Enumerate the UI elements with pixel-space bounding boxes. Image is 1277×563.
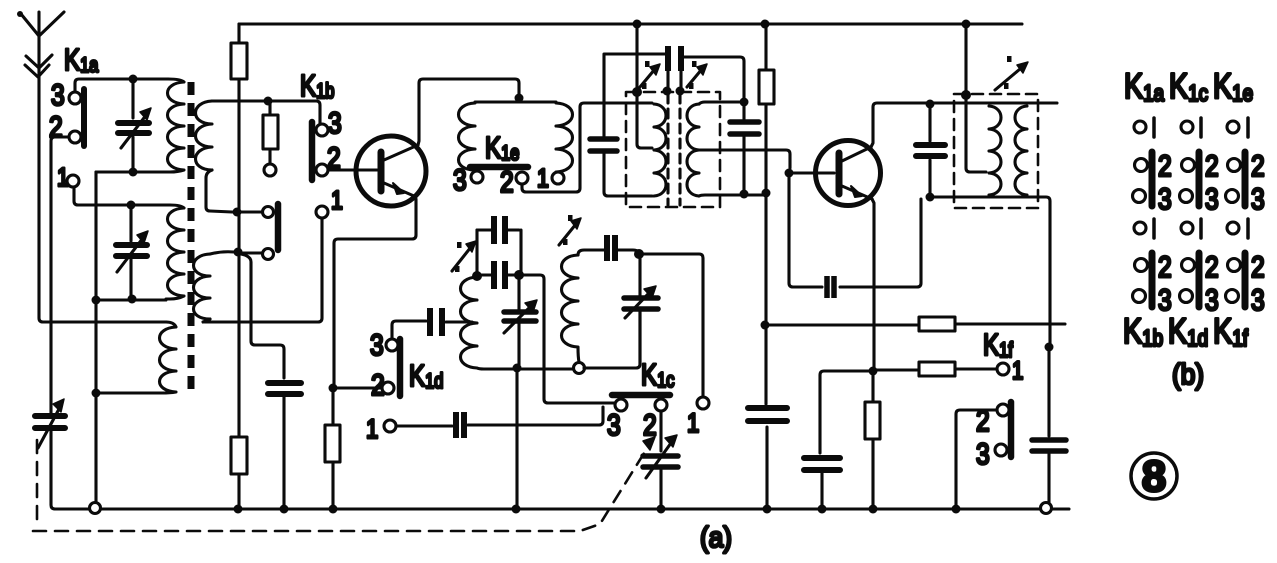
resistor R4 xyxy=(759,24,774,190)
output can dashed box xyxy=(954,94,1038,208)
node x767 bus xyxy=(763,505,772,514)
coil L2 antenna primary 2 xyxy=(131,205,184,299)
wire IF secondary bottom lead xyxy=(699,195,764,196)
svg-text:3: 3 xyxy=(328,106,342,140)
switch K1c moving bar xyxy=(612,392,670,399)
wire C12 left lead down xyxy=(604,54,666,136)
switch K1c contact 1 xyxy=(697,397,709,409)
node IF can top left xyxy=(632,87,642,97)
transistor Q2 xyxy=(816,141,881,206)
capacitor C14 IF right xyxy=(730,102,759,190)
magnetic core dashed xyxy=(188,82,195,392)
legend row4 group2 switch xyxy=(1180,250,1219,317)
capacitor C7 osc B xyxy=(607,235,615,261)
node x766 y193 xyxy=(762,189,771,198)
node x639 y254 xyxy=(634,249,644,259)
resistor R3 emitter xyxy=(325,392,340,509)
switch K1b moving bar xyxy=(309,122,316,180)
switch K1a contact 3 xyxy=(69,92,81,104)
wire rail tap to IF primary xyxy=(637,24,652,148)
node rail x637 xyxy=(633,20,642,29)
switch K1c contact 3 xyxy=(615,399,627,411)
node K1c cap on bus xyxy=(657,505,666,514)
aux contact bar xyxy=(275,204,282,250)
svg-text:K1f: K1f xyxy=(983,327,1013,362)
capacitor C15 Q2 base-emitter xyxy=(789,177,921,298)
switch K1f contact 2 xyxy=(997,404,1009,416)
svg-text:(a): (a) xyxy=(700,521,732,554)
wire osc cap left node xyxy=(475,230,478,274)
wire right node to K1c-3 xyxy=(523,275,614,403)
svg-text:2: 2 xyxy=(1158,149,1172,183)
coil S1 secondary 1 xyxy=(196,101,213,170)
wire AGC rail y324 xyxy=(769,324,1065,325)
wire tuned2 bottom xyxy=(96,298,166,301)
trimmer capacitor CT1 xyxy=(35,399,65,509)
resistor R2 hanging xyxy=(263,101,278,164)
wire K1a-2 down to trimmer xyxy=(51,137,68,414)
wire Q2 collector up xyxy=(871,103,926,147)
wire IF secondary top lead xyxy=(699,102,739,104)
wire antenna lead down to ground rail xyxy=(39,36,43,322)
capacitor C17 Q2 collector xyxy=(916,107,945,194)
adjust arrow IF right xyxy=(687,61,707,89)
wire cap C7 to node xyxy=(618,250,639,254)
wire K1e-2 to IF primary top xyxy=(522,103,652,192)
wire ground rail y322 xyxy=(43,320,166,323)
wire tap into output primary xyxy=(966,95,986,172)
svg-text:2: 2 xyxy=(643,408,657,442)
legend row2 group2 switch xyxy=(1180,149,1219,216)
wire S1 bottom xyxy=(206,170,232,212)
legend row4 group3 switch xyxy=(1226,250,1265,317)
switch K1f moving bar xyxy=(1008,402,1015,457)
svg-text:3: 3 xyxy=(51,78,65,112)
node K1e feed xyxy=(515,94,524,103)
coil LA oscillator xyxy=(461,277,485,369)
svg-text:K1aK1cK1e: K1aK1cK1e xyxy=(1124,66,1253,106)
wire emitter node right to K1f-1 xyxy=(877,369,996,370)
adjust arrow output can xyxy=(995,56,1028,90)
node tuned1 top xyxy=(129,75,138,84)
variable capacitor C8 xyxy=(624,258,658,364)
node tuned2 top xyxy=(127,201,136,210)
svg-text:2: 2 xyxy=(1251,149,1265,183)
variable capacitor C6 osc xyxy=(504,277,537,365)
switch K1c contact 2 xyxy=(655,399,667,411)
switch K1b contact 2 xyxy=(316,164,328,176)
wire to aux contact a xyxy=(241,210,262,213)
adjust arrow IF left xyxy=(640,61,660,89)
svg-text:3: 3 xyxy=(1251,283,1265,317)
wire osc bottom rail xyxy=(482,311,640,369)
switch K1a moving bar xyxy=(81,89,87,146)
legend row3 group1 contact xyxy=(1134,219,1154,238)
node tuned2 bottom xyxy=(128,295,137,304)
wire base node to Q2 xyxy=(793,171,834,174)
svg-text:2: 2 xyxy=(1205,250,1219,284)
node IF core left top xyxy=(663,87,672,96)
capacitor C19 emitter bypass xyxy=(804,458,840,509)
wire x766 down to AGC rail xyxy=(764,197,767,322)
wire S1 top to K1b-3 xyxy=(212,101,320,123)
svg-text:3: 3 xyxy=(1205,182,1219,216)
wire emitter node left to cap xyxy=(820,371,869,453)
legend row4 group1 switch xyxy=(1133,250,1172,317)
svg-text:K1d: K1d xyxy=(409,358,443,393)
node R7 bus xyxy=(869,505,878,514)
capacitor C12 IF top xyxy=(668,46,681,87)
wire jog down to decoupling cap xyxy=(241,254,284,378)
wire S2 top to node xyxy=(210,252,234,254)
svg-text:2: 2 xyxy=(1158,250,1172,284)
node osc coil A top xyxy=(472,271,482,281)
wire osc cap right node xyxy=(519,230,522,274)
svg-text:2: 2 xyxy=(500,165,514,199)
resistor R1 top xyxy=(231,24,247,437)
switch K1d contact 2 xyxy=(382,382,394,394)
K1e contact 1 circle xyxy=(552,172,564,184)
svg-text:1: 1 xyxy=(687,409,699,439)
wire K1a-1 to tuned circuit 2 top xyxy=(74,188,131,205)
node sec1 bottom x238 xyxy=(233,208,242,217)
node IF right top xyxy=(740,98,749,107)
coil IF secondary xyxy=(687,104,699,196)
node rail x765 xyxy=(761,20,770,29)
wire K1a-3 to tuned circuit 1 top xyxy=(75,79,168,91)
node collector wire x930 xyxy=(926,100,935,109)
node tuned1 bottom xyxy=(129,168,138,177)
node x96 y393 xyxy=(92,389,101,398)
wire osc coil B top to cap xyxy=(578,250,604,255)
svg-text:1: 1 xyxy=(1012,356,1023,384)
node IF right bottom xyxy=(740,190,749,199)
IF core dashed line right xyxy=(678,94,681,205)
svg-text:K1bK1dK1f: K1bK1dK1f xyxy=(1123,311,1248,351)
switch K1a contact 2 xyxy=(69,131,81,143)
wire S2 bottom xyxy=(203,319,210,322)
variable capacitor C2 xyxy=(116,205,148,297)
node bus x517 xyxy=(512,505,521,514)
node Q2 base xyxy=(785,169,794,178)
capacitor C10 xyxy=(456,412,464,438)
adjust arrow osc coil B xyxy=(559,215,581,245)
svg-text:3: 3 xyxy=(976,437,990,471)
wire K1b-1 down to sec2 bottom rail xyxy=(205,218,322,322)
node x930 y197 xyxy=(926,193,935,202)
node bus x333 xyxy=(329,505,338,514)
legend row2 group1 switch xyxy=(1133,149,1172,216)
coil output secondary xyxy=(1015,106,1027,195)
switch K1d contact 3 xyxy=(386,339,398,351)
wire K1f-2 to bus xyxy=(956,410,997,505)
wire K1c-2 down xyxy=(659,411,662,505)
legend row1 group3 contact xyxy=(1227,118,1248,137)
svg-text:K1c: K1c xyxy=(641,357,674,392)
node osc bus x517 xyxy=(513,364,522,373)
legend row1 group1 contact xyxy=(1134,118,1154,137)
wire x1049 down to bus xyxy=(1047,351,1050,503)
variable capacitor C11 xyxy=(643,435,678,478)
svg-text:2: 2 xyxy=(1205,149,1219,183)
aux contact circle b xyxy=(263,249,274,260)
resistor R6 xyxy=(919,362,955,376)
terminal circle below R2 xyxy=(264,164,276,176)
coil output primary xyxy=(989,106,1001,195)
coil K1e tapped xyxy=(459,102,573,172)
variable capacitor C1 xyxy=(118,79,151,171)
wire left vertical x96 xyxy=(94,172,97,503)
switch K1a contact 1 xyxy=(67,175,79,187)
capacitor C9 xyxy=(430,308,442,336)
svg-text:3: 3 xyxy=(370,328,384,362)
coil LB oscillator xyxy=(562,255,580,362)
wire node to K1c-1 xyxy=(643,254,703,397)
wire K1d-1 via cap to K1c-3 xyxy=(396,407,603,426)
node x96 y300 xyxy=(92,296,101,305)
capacitor C13 IF left xyxy=(590,139,652,196)
svg-text:3: 3 xyxy=(1251,182,1265,216)
svg-text:K1b: K1b xyxy=(300,68,334,103)
legend row3 group3 contact xyxy=(1227,219,1248,238)
switch K1d moving bar xyxy=(397,339,404,396)
switch K1b contact 3 xyxy=(316,124,328,136)
K1e contact 2 circle xyxy=(516,172,528,184)
switch K1b contact 1 xyxy=(316,206,328,218)
IF can dashed box xyxy=(626,92,720,207)
node R1 top rail xyxy=(239,22,1022,25)
capacitor C5 osc lower xyxy=(480,261,517,289)
resistor R7 emitter xyxy=(865,375,880,509)
wire collector to output transformer xyxy=(926,101,1057,104)
legend row2 group3 switch xyxy=(1226,149,1265,216)
capacitor C16 wide xyxy=(748,329,787,505)
svg-text:2: 2 xyxy=(1251,250,1265,284)
node C19 bus xyxy=(818,505,827,514)
wire Q1 collector up and to K1e xyxy=(418,79,519,145)
svg-text:8: 8 xyxy=(1142,452,1166,501)
node bus x284 xyxy=(280,505,289,514)
node Q2 emitter junction xyxy=(869,367,878,376)
coil S2 secondary 2 xyxy=(194,254,211,319)
adjust arrow osc coil A xyxy=(452,241,476,272)
node x765 y325 xyxy=(761,321,770,330)
dashed gang line xyxy=(33,440,651,531)
figure number circled 8 xyxy=(1131,452,1177,501)
main bottom bus xyxy=(55,507,1069,510)
IF core dashed line left xyxy=(666,94,669,205)
node K1f bus xyxy=(952,505,961,514)
wire Q2 emitter down xyxy=(872,199,874,367)
connector circle on bus left xyxy=(90,503,101,514)
switch K1f contact 1 xyxy=(997,363,1009,375)
coil L1 antenna primary 1 xyxy=(164,79,184,172)
svg-text:1: 1 xyxy=(537,164,549,194)
switch K1d contact 1 xyxy=(384,420,396,432)
node output right x1050 xyxy=(1045,343,1054,352)
antenna xyxy=(17,11,64,77)
wire K1b-2 to Q1 base xyxy=(328,168,377,171)
connector circle bus right xyxy=(1041,503,1052,514)
svg-text:1: 1 xyxy=(366,415,378,445)
wire K1d-3 via cap to osc coil A tap xyxy=(392,321,472,339)
svg-text:K1a: K1a xyxy=(64,42,99,77)
capacitor C4 osc top xyxy=(477,216,519,244)
K1e moving bar xyxy=(470,164,528,171)
capacitor C3 decoupling xyxy=(268,383,301,509)
svg-text:3: 3 xyxy=(1158,182,1172,216)
resistor R5 on AGC rail xyxy=(919,317,955,331)
capacitor C18 right xyxy=(1032,440,1066,451)
node rail x966 xyxy=(962,20,971,29)
K1e contact 3 circle xyxy=(471,171,483,183)
wire Q1 emitter down xyxy=(334,196,416,384)
coil L3 antenna primary 3 xyxy=(95,322,176,393)
node sec2 top x238 xyxy=(234,248,243,257)
node output can top xyxy=(961,90,971,100)
svg-text:3: 3 xyxy=(453,163,467,197)
legend row3 group2 contact xyxy=(1181,219,1201,238)
node sec1 top xyxy=(264,97,273,106)
wire tuned1 bottom xyxy=(96,170,164,173)
wire IF secondary tap to Q2 base xyxy=(699,150,790,168)
resistor R8 bottom of x238 xyxy=(231,437,247,509)
aux contact circle a xyxy=(263,207,274,218)
legend row1 group2 contact xyxy=(1181,118,1201,137)
connector circle osc coil B bottom xyxy=(574,363,585,374)
wire osc x517 to bus xyxy=(515,368,518,509)
svg-text:K1e: K1e xyxy=(485,130,519,165)
svg-text:3: 3 xyxy=(607,408,621,442)
node bus x237 xyxy=(234,505,243,514)
node Q1 emitter resistor top xyxy=(329,384,338,393)
wire output bottom y197 xyxy=(934,197,1050,344)
wire node252 to aux contact b xyxy=(242,251,262,254)
switch K1f contact 3 xyxy=(995,444,1007,456)
coil IF primary xyxy=(654,104,666,196)
transistor Q1 xyxy=(356,136,426,206)
svg-text:(b): (b) xyxy=(1172,358,1204,391)
node IF core right top xyxy=(676,87,685,96)
wire C12 right lead down xyxy=(683,57,744,99)
node osc caps right xyxy=(514,270,524,280)
wire emitter node to K1d-2 xyxy=(337,386,382,389)
wire rail to output tap xyxy=(964,24,967,91)
svg-text:1: 1 xyxy=(331,186,343,216)
